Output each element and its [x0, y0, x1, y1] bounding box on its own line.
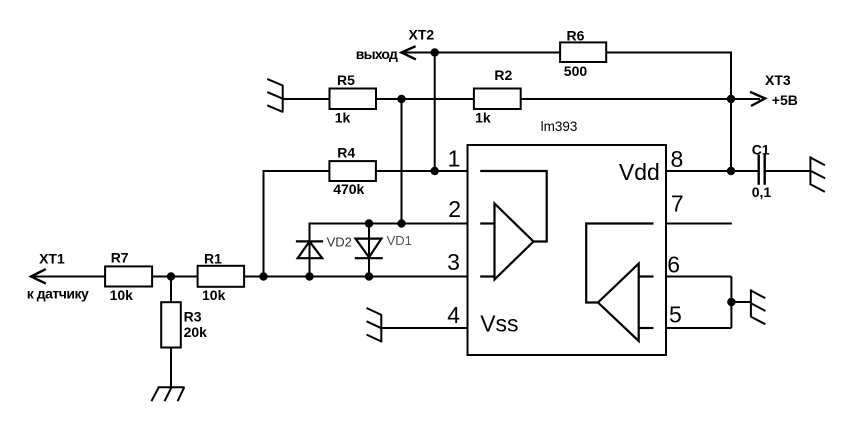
- svg-text:C1: C1: [752, 142, 770, 158]
- svg-text:10k: 10k: [110, 287, 134, 303]
- svg-text:R4: R4: [337, 145, 355, 161]
- svg-text:2: 2: [448, 196, 461, 222]
- svg-text:3: 3: [447, 249, 460, 275]
- svg-text:470k: 470k: [333, 181, 364, 197]
- svg-text:R5: R5: [337, 72, 355, 88]
- svg-text:lm393: lm393: [541, 119, 578, 134]
- svg-text:20k: 20k: [184, 324, 208, 340]
- svg-text:XT2: XT2: [409, 27, 435, 43]
- svg-text:R7: R7: [111, 250, 129, 266]
- svg-text:5: 5: [669, 302, 682, 328]
- svg-text:R2: R2: [494, 67, 512, 83]
- svg-text:7: 7: [671, 191, 684, 217]
- svg-text:0,1: 0,1: [752, 184, 772, 200]
- svg-text:6: 6: [667, 252, 680, 278]
- svg-text:4: 4: [447, 302, 460, 328]
- svg-text:500: 500: [564, 63, 588, 79]
- svg-text:XT1: XT1: [39, 251, 65, 267]
- svg-text:1: 1: [448, 146, 461, 172]
- svg-text:1k: 1k: [475, 110, 491, 126]
- svg-text:R1: R1: [204, 251, 222, 267]
- svg-text:выход: выход: [356, 46, 398, 62]
- svg-text:VD2: VD2: [327, 235, 352, 250]
- svg-text:XT3: XT3: [765, 72, 791, 88]
- svg-text:8: 8: [671, 146, 684, 172]
- svg-text:Vss: Vss: [480, 310, 518, 336]
- svg-text:к датчику: к датчику: [27, 286, 89, 302]
- svg-text:R6: R6: [567, 27, 585, 43]
- svg-text:1k: 1k: [335, 109, 351, 125]
- svg-text:Vdd: Vdd: [619, 159, 660, 185]
- svg-text:VD1: VD1: [387, 233, 412, 248]
- svg-text:10k: 10k: [202, 287, 226, 303]
- svg-text:R3: R3: [184, 309, 202, 325]
- svg-text:+5В: +5В: [772, 92, 798, 108]
